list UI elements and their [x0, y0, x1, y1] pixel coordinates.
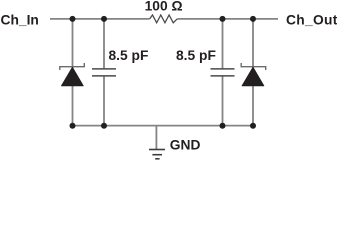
junction dot bottom wire right-diode	[250, 123, 256, 129]
wire ground stub	[155, 126, 157, 149]
junction dot top wire right-cap	[220, 16, 226, 22]
ground symbol bar 2	[152, 154, 162, 156]
junction dot bottom wire right-cap	[220, 123, 226, 129]
svg-text:8.5 pF: 8.5 pF	[176, 48, 216, 63]
wire left capacitor branch lower	[103, 76, 105, 126]
junction dot top wire right-diode	[250, 16, 256, 22]
capacitor C1 top plate	[92, 68, 116, 70]
wire left capacitor branch upper	[103, 19, 105, 69]
resistor R (100 ohm) zigzag	[150, 15, 178, 23]
TVS diode D2 cathode bar (zener style, mirrored)	[241, 63, 266, 70]
svg-text:GND: GND	[170, 138, 201, 153]
junction dot top wire left-diode	[70, 16, 76, 22]
wire top-right (resistor to Ch_Out)	[177, 18, 278, 20]
junction dot bottom wire left-diode	[70, 123, 76, 129]
capacitor C2 bottom plate	[211, 75, 235, 77]
wire top-left (Ch_In to resistor)	[50, 18, 150, 20]
ground symbol bar 3	[155, 158, 159, 160]
svg-text:Ch_Out: Ch_Out	[286, 13, 337, 28]
junction dot top wire left-cap	[101, 16, 107, 22]
wire right capacitor branch upper	[222, 19, 224, 69]
capacitor C1 bottom plate	[92, 75, 116, 77]
ground symbol bar 1	[149, 149, 165, 151]
TVS diode D1 triangle	[61, 67, 83, 86]
wire right diode branch	[252, 19, 254, 126]
svg-text:Ch_In: Ch_In	[1, 13, 39, 28]
svg-text:8.5 pF: 8.5 pF	[109, 48, 149, 63]
junction dot bottom wire left-cap	[101, 123, 107, 129]
capacitor C2 top plate	[211, 68, 235, 70]
wire right capacitor branch lower	[222, 76, 224, 126]
wire bottom rail	[73, 125, 254, 127]
TVS diode D1 cathode bar (zener style)	[60, 63, 85, 70]
wire left diode branch	[72, 19, 74, 126]
TVS diode D2 triangle	[242, 67, 264, 86]
svg-text:100 Ω: 100 Ω	[145, 0, 183, 14]
